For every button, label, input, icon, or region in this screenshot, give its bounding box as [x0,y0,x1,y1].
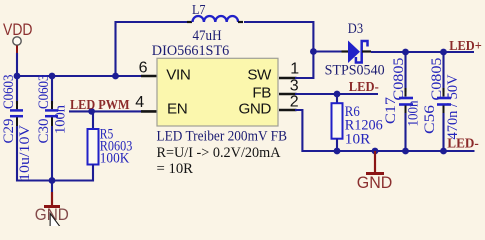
node junction VDD/C29 [14,73,21,80]
capacitor C30 [36,75,69,144]
pin 3 stub FB [279,93,297,96]
mouse cursor [50,214,61,230]
wire GND1 stub [51,181,53,193]
node junction SW/D3 [310,48,317,55]
wire L7 to SW corner [244,22,313,78]
ground GND2 [357,151,393,192]
capacitor C56 [422,58,461,140]
svg-text:3: 3 [290,78,299,95]
svg-text:VIN: VIN [166,66,190,83]
wire C56 branch [442,52,444,92]
svg-text:C0805: C0805 [391,58,407,101]
svg-text:LED Treiber 200mV FB: LED Treiber 200mV FB [157,129,288,145]
svg-text:C17: C17 [383,96,399,124]
svg-text:100n: 100n [53,105,69,134]
svg-text:10u/10V: 10u/10V [17,125,33,181]
svg-text:STPS0540: STPS0540 [325,63,385,79]
svg-text:2: 2 [290,94,299,111]
svg-text:C0603: C0603 [36,75,52,110]
wire top rail to L7 [116,22,191,76]
svg-text:LED-: LED- [349,79,379,94]
svg-text:SW: SW [247,66,272,83]
svg-text:L7: L7 [192,2,206,17]
svg-text:LED+: LED+ [449,38,482,53]
wire C17 to bottom rail [404,113,406,151]
node junction GND1 [49,177,56,184]
svg-text:100n: 100n [406,100,422,126]
wire D3 cathode to LED+ [371,51,474,53]
svg-text:1: 1 [290,60,299,77]
diode D3 STPS0540 [325,21,385,78]
wire C17 branch [404,52,406,92]
op-amp U1 DIO5661ST6 body [157,58,278,126]
svg-text:C29: C29 [1,119,17,144]
wire C30 to bottom rail [51,126,53,181]
pin 2 stub GND [279,109,297,112]
svg-text:GND: GND [238,100,271,117]
node junction R6 bottom [334,148,341,155]
node junction C30 [49,73,56,80]
svg-text:FB: FB [252,84,271,101]
node junction GND2 stub [372,148,379,155]
wire D3 anode [313,50,342,52]
node junction C56 top [440,49,447,56]
svg-text:DIO5661ST6: DIO5661ST6 [152,43,230,59]
pin 4 stub EN [141,110,158,113]
svg-text:100K: 100K [100,151,130,167]
svg-text:LED PWM: LED PWM [70,97,130,112]
resistor R6 [332,94,384,151]
pin 6 stub VIN [141,75,158,78]
svg-text:GND: GND [357,173,393,192]
svg-text:C56: C56 [422,104,438,134]
wire FB [295,93,378,95]
pin 1 stub SW [279,77,297,80]
svg-text:470n / 50V: 470n / 50V [445,74,461,139]
inductor L7 [187,2,243,44]
svg-text:D3: D3 [348,21,363,37]
wire C29 to bottom rail [16,126,18,182]
node junction C17 bottom [402,148,409,155]
description text [157,129,288,178]
ground GND1 [35,192,69,224]
resistor R5 [88,111,133,181]
svg-text:47uH: 47uH [193,28,222,44]
wire VDD vertical [16,53,18,76]
wire LED_PWM to EN [69,110,143,112]
svg-text:4: 4 [135,94,144,111]
svg-text:C30: C30 [36,119,52,144]
svg-text:EN: EN [167,100,187,117]
wire C29 branch vertical [16,76,18,104]
svg-text:= 10R: = 10R [157,161,194,177]
node junction R5/EN [88,108,95,115]
capacitor C17 [383,58,422,127]
svg-text:10R: 10R [345,132,371,148]
wire VIN rail [17,75,150,77]
wire C30 branch vertical [51,76,53,104]
node junction FB/R6 [334,91,341,98]
node junction C17 top [402,49,409,56]
power port VDD [3,21,33,53]
svg-text:C0603: C0603 [1,75,17,110]
svg-text:R=U/I -> 0.2V/20mA: R=U/I -> 0.2V/20mA [157,145,282,161]
node junction to L7 branch [112,73,119,80]
wire left bottom rail [17,179,93,181]
svg-text:C0805: C0805 [429,58,445,101]
svg-text:6: 6 [139,60,148,77]
wire GND pin 2 to bottom rail [295,110,475,151]
wire C56 to bottom rail [442,113,444,151]
node junction C56 bottom [440,148,447,155]
capacitor C29 [1,75,33,182]
